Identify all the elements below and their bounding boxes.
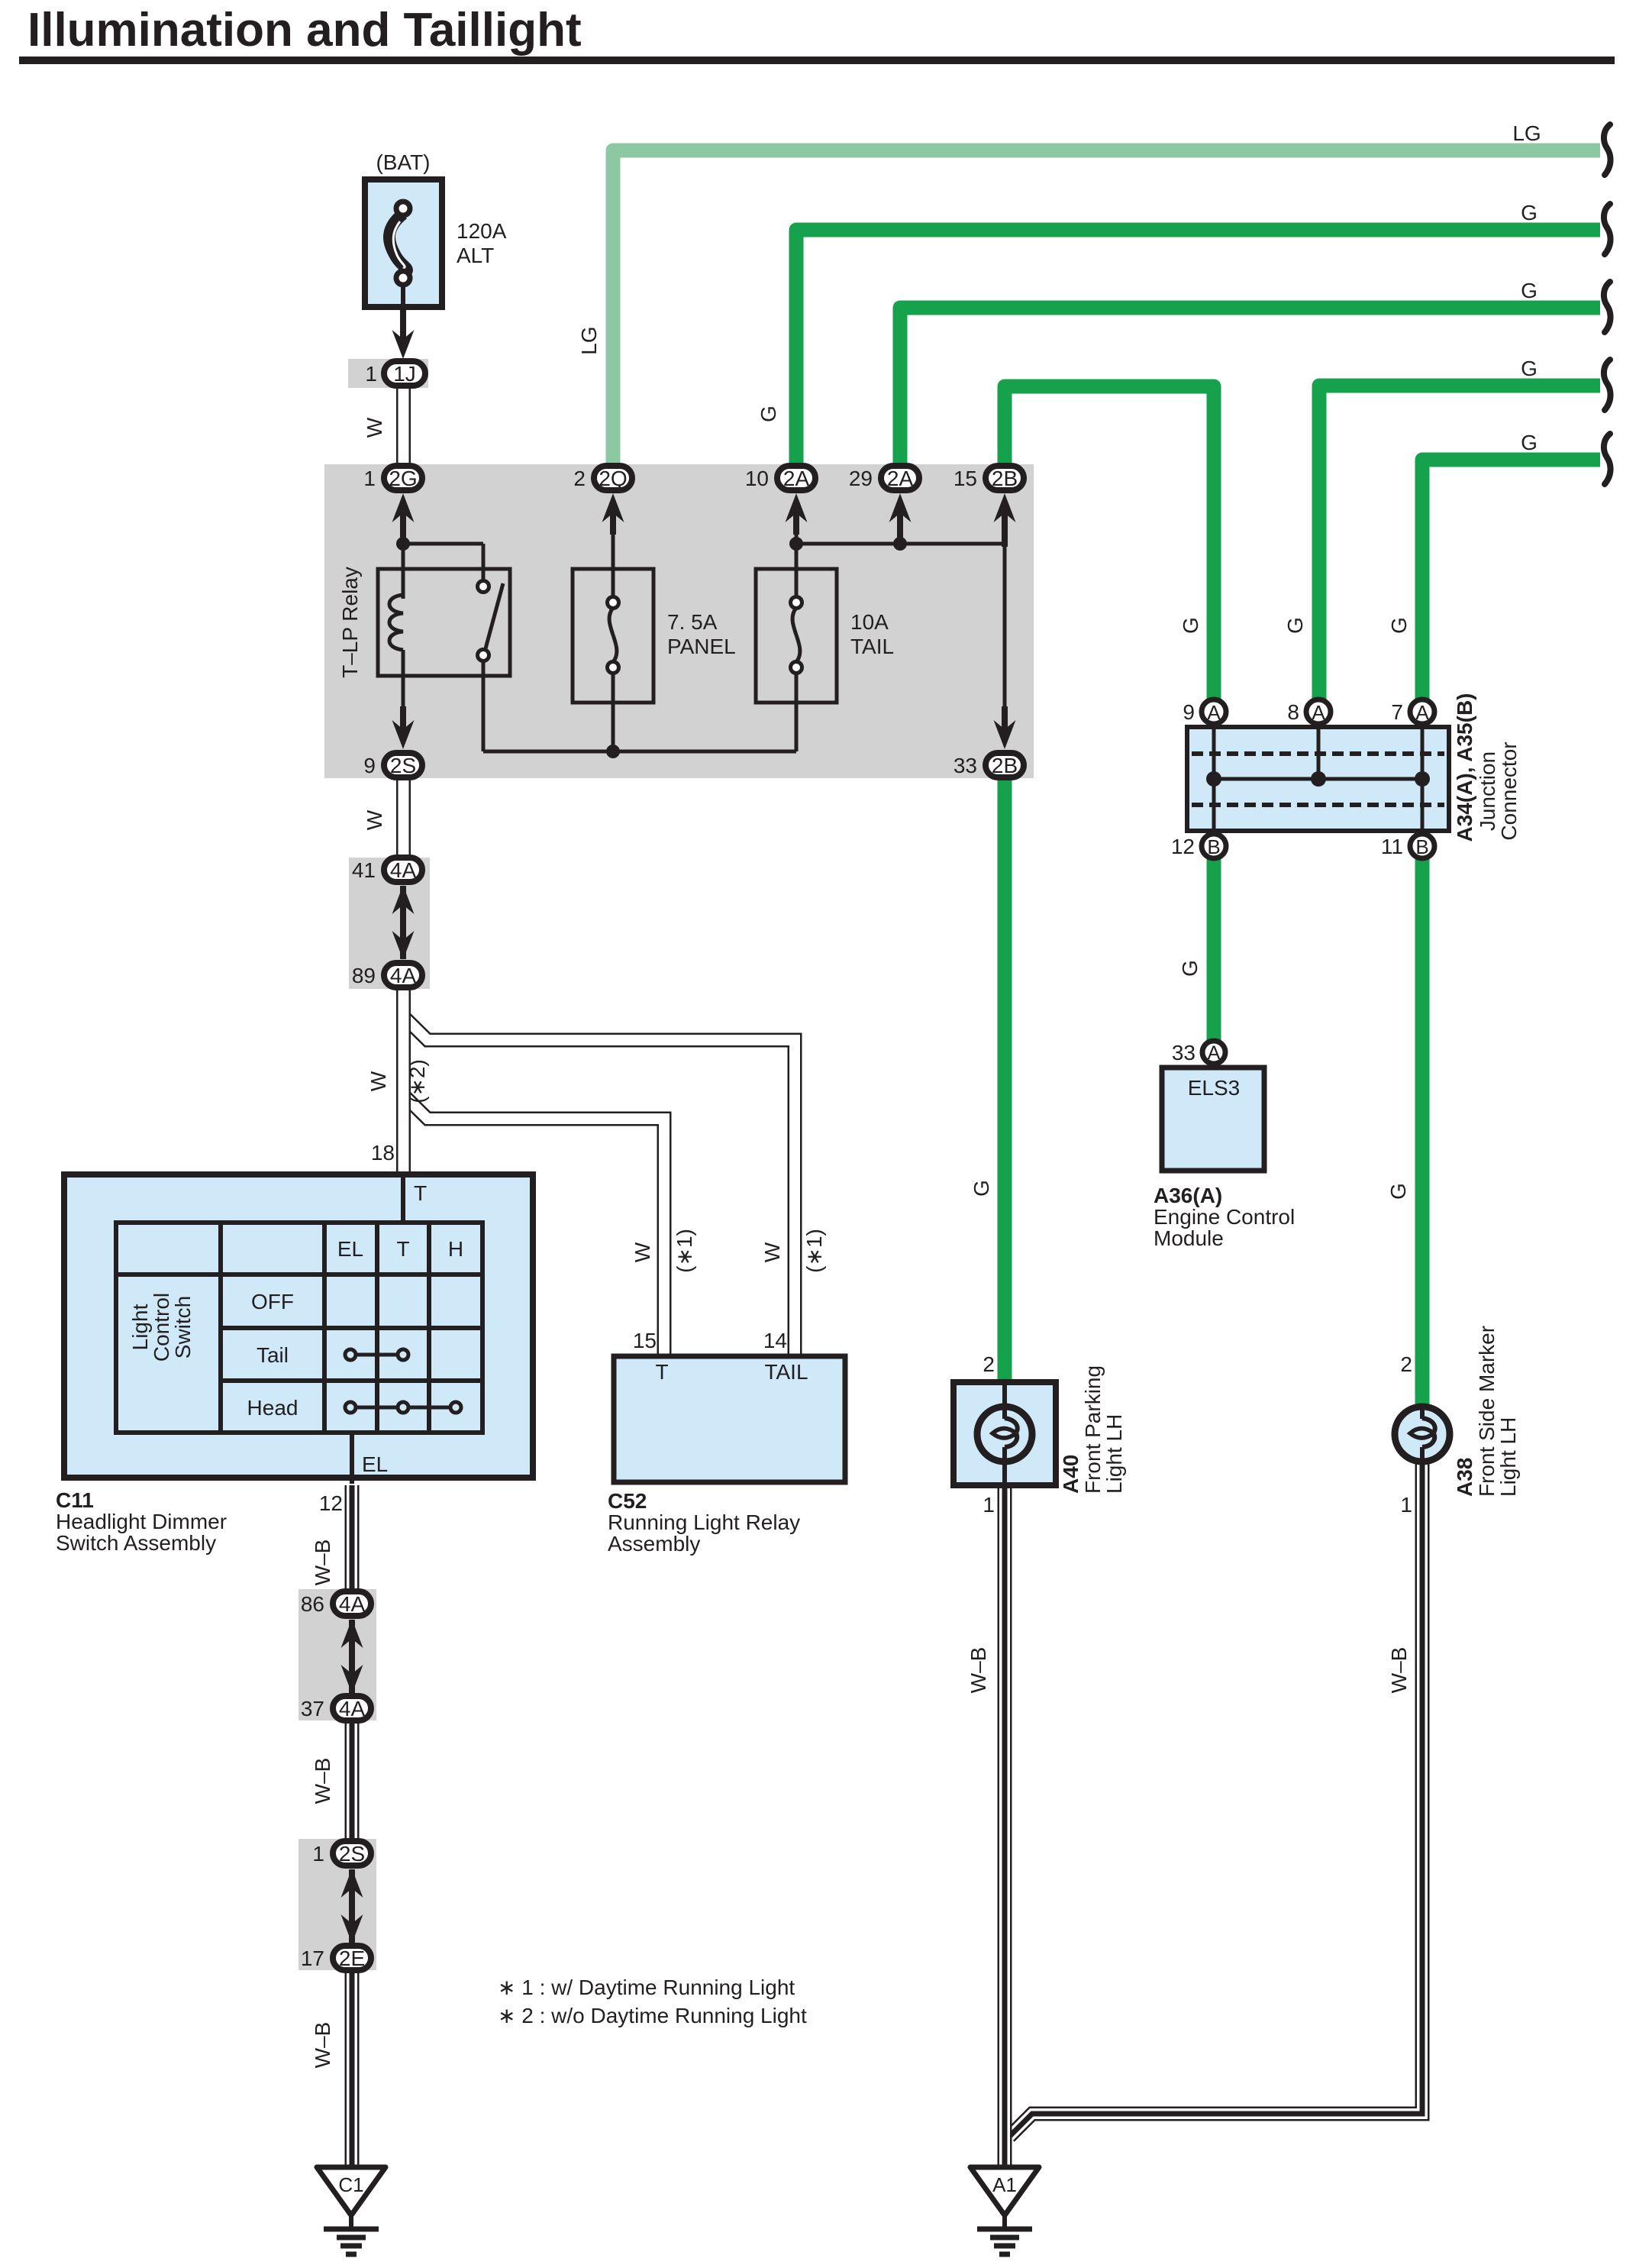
svg-text:PANEL: PANEL bbox=[667, 635, 736, 658]
svg-text:1: 1 bbox=[312, 1842, 324, 1866]
svg-text:G: G bbox=[1179, 617, 1202, 634]
svg-text:G: G bbox=[1521, 431, 1538, 454]
light control switch table bbox=[116, 1223, 482, 1433]
connector 15 2B bbox=[954, 466, 1024, 490]
svg-text:2S: 2S bbox=[339, 1842, 365, 1866]
svg-text:4A: 4A bbox=[339, 1592, 366, 1616]
wire bus 2A to 2B column bbox=[796, 507, 1005, 716]
connector 41/89 4A background bbox=[349, 858, 430, 989]
switch contacts Tail row bbox=[345, 1349, 408, 1360]
break symbol LG wire bbox=[1604, 124, 1611, 175]
junction block internal circuit: 2G to relay bbox=[402, 507, 484, 599]
svg-text:ALT: ALT bbox=[457, 244, 494, 267]
svg-text:∗ 2 : w/o Daytime Running Ligh: ∗ 2 : w/o Daytime Running Light bbox=[498, 2004, 807, 2027]
label junction connector bbox=[1453, 693, 1521, 842]
svg-text:1: 1 bbox=[363, 467, 376, 490]
svg-text:A38: A38 bbox=[1453, 1458, 1476, 1497]
svg-text:8: 8 bbox=[1287, 700, 1299, 724]
svg-text:Switch: Switch bbox=[171, 1296, 195, 1359]
junction block background (gray) bbox=[324, 464, 1034, 778]
svg-text:(∗1): (∗1) bbox=[802, 1229, 826, 1273]
wire W branch to C52 pin 15 bbox=[404, 1095, 665, 1356]
switch contacts Head row bbox=[345, 1402, 461, 1413]
svg-text:LG: LG bbox=[577, 326, 601, 354]
arrow up into 2 2Q bbox=[602, 493, 624, 522]
svg-text:7: 7 bbox=[1391, 700, 1403, 724]
svg-text:2: 2 bbox=[983, 1352, 995, 1376]
svg-text:Front Parking: Front Parking bbox=[1081, 1365, 1105, 1494]
svg-text:10: 10 bbox=[745, 467, 769, 490]
connector pair 41/89 4A bbox=[352, 858, 422, 987]
svg-text:2: 2 bbox=[1400, 1352, 1412, 1376]
table texts bbox=[128, 1181, 463, 1476]
svg-text:89: 89 bbox=[352, 964, 376, 987]
svg-text:W: W bbox=[366, 1071, 390, 1091]
pin 12 B bbox=[1171, 834, 1226, 858]
svg-text:Module: Module bbox=[1154, 1226, 1224, 1250]
pin 9 A bbox=[1183, 699, 1226, 724]
svg-text:A: A bbox=[1207, 701, 1221, 724]
label A40 bbox=[1059, 1365, 1126, 1494]
svg-text:86: 86 bbox=[301, 1592, 324, 1616]
ground A1 bbox=[970, 2167, 1039, 2254]
svg-text:EL: EL bbox=[337, 1237, 363, 1261]
connector 33 2B bbox=[954, 753, 1024, 777]
svg-text:Tail: Tail bbox=[257, 1343, 289, 1367]
svg-text:A: A bbox=[1208, 1042, 1221, 1064]
connector 1J background bbox=[348, 359, 428, 388]
fuse 10A TAIL bbox=[756, 507, 837, 751]
wire G junction pin 11B to A38 bbox=[1415, 858, 1430, 1409]
svg-text:A: A bbox=[1415, 701, 1429, 724]
wire G from 29 2A to right edge bbox=[900, 308, 1600, 465]
wire EL inside C11 bbox=[350, 1433, 354, 1484]
svg-text:4A: 4A bbox=[390, 858, 417, 882]
node junction panel fuse bottom bbox=[606, 745, 620, 758]
node junction at 2G stem bbox=[396, 537, 410, 551]
label 120A ALT bbox=[457, 219, 507, 267]
wire W branch to C52 pin 14 bbox=[404, 1016, 795, 1356]
svg-text:9: 9 bbox=[363, 754, 376, 777]
svg-text:4A: 4A bbox=[339, 1697, 366, 1720]
svg-text:33: 33 bbox=[1172, 1041, 1196, 1065]
svg-text:W–B: W–B bbox=[1387, 1647, 1411, 1694]
arrow up into 15 2B bbox=[994, 493, 1016, 522]
label fuse PANEL bbox=[667, 610, 736, 658]
svg-text:A34(A), A35(B): A34(A), A35(B) bbox=[1453, 693, 1476, 842]
svg-text:Headlight Dimmer: Headlight Dimmer bbox=[56, 1510, 227, 1533]
svg-text:2E: 2E bbox=[339, 1947, 365, 1970]
svg-text:Light: Light bbox=[128, 1304, 152, 1350]
svg-text:18: 18 bbox=[371, 1141, 395, 1165]
svg-text:B: B bbox=[1207, 835, 1220, 858]
svg-text:A: A bbox=[1312, 701, 1325, 724]
svg-text:7. 5A: 7. 5A bbox=[667, 610, 718, 634]
svg-text:(∗2): (∗2) bbox=[405, 1059, 429, 1103]
arrow up into 29 2A bbox=[889, 493, 912, 522]
wire W 89 4A to C11 pin 18 bbox=[396, 987, 411, 1173]
wire T inside C11 bbox=[401, 1174, 405, 1225]
wire labels bbox=[311, 121, 1541, 2068]
svg-text:Control: Control bbox=[150, 1293, 173, 1362]
fuse 7.5A PANEL bbox=[573, 507, 653, 751]
connector 2 2Q bbox=[573, 466, 632, 490]
node junction 10 2A stem bbox=[789, 537, 803, 551]
svg-text:∗ 1 : w/ Daytime Running Light: ∗ 1 : w/ Daytime Running Light bbox=[498, 1976, 795, 1999]
connector pair 1 2S / 17 2E bbox=[301, 1841, 371, 1970]
svg-text:Light LH: Light LH bbox=[1102, 1414, 1126, 1494]
wire G from junction connector pin 8A to right edge bbox=[1319, 386, 1600, 699]
svg-text:T: T bbox=[655, 1360, 668, 1384]
arrow up into 1 2G bbox=[392, 493, 415, 522]
svg-text:41: 41 bbox=[352, 858, 376, 882]
svg-text:W–B: W–B bbox=[311, 1758, 334, 1804]
connector 86/37 4A background bbox=[298, 1589, 376, 1720]
wire G junction pin 12B to ELS3 pin 33A bbox=[1207, 858, 1221, 1041]
connector 1 2G bbox=[363, 466, 422, 490]
wire W-B A40 to ground A1 bbox=[998, 1487, 1012, 2167]
svg-text:T: T bbox=[414, 1181, 427, 1205]
svg-text:2A: 2A bbox=[887, 467, 914, 490]
svg-text:A36(A): A36(A) bbox=[1154, 1184, 1222, 1207]
svg-text:EL: EL bbox=[362, 1452, 388, 1476]
svg-text:2: 2 bbox=[573, 467, 586, 490]
svg-text:W–B: W–B bbox=[311, 1539, 334, 1586]
relay T-LP Relay bbox=[378, 569, 510, 710]
wire LG from fuse 2Q to right edge bbox=[613, 150, 1600, 465]
svg-text:G: G bbox=[1387, 617, 1411, 634]
svg-text:T–LP Relay: T–LP Relay bbox=[338, 567, 362, 678]
connector 1 1J bbox=[365, 361, 425, 386]
svg-text:C11: C11 bbox=[56, 1488, 94, 1512]
svg-text:12: 12 bbox=[319, 1491, 343, 1515]
connector 9 2S bbox=[363, 753, 422, 777]
svg-text:W: W bbox=[363, 809, 386, 830]
svg-text:Assembly: Assembly bbox=[608, 1532, 700, 1556]
svg-text:10A: 10A bbox=[850, 610, 889, 634]
svg-text:11: 11 bbox=[1381, 835, 1403, 858]
svg-text:ELS3: ELS3 bbox=[1188, 1076, 1241, 1100]
svg-text:29: 29 bbox=[849, 467, 873, 490]
svg-text:17: 17 bbox=[301, 1947, 324, 1970]
svg-text:T: T bbox=[396, 1237, 409, 1261]
switch C11 box bbox=[64, 1174, 533, 1478]
node junction dot pin8 bbox=[1311, 771, 1326, 787]
connector 10 2A bbox=[745, 466, 815, 490]
wire ALT output with arrow into 1J bbox=[392, 310, 415, 359]
pin 11 B bbox=[1381, 834, 1434, 858]
svg-text:15: 15 bbox=[633, 1329, 657, 1352]
svg-text:A1: A1 bbox=[992, 2173, 1017, 2196]
svg-text:G: G bbox=[1178, 960, 1202, 977]
svg-text:14: 14 bbox=[763, 1329, 787, 1352]
svg-text:Head: Head bbox=[247, 1396, 298, 1420]
svg-text:120A: 120A bbox=[457, 219, 507, 243]
svg-text:2Q: 2Q bbox=[599, 467, 627, 490]
svg-text:Front Side Marker: Front Side Marker bbox=[1475, 1326, 1499, 1497]
svg-text:Light LH: Light LH bbox=[1496, 1417, 1520, 1497]
svg-text:A40: A40 bbox=[1059, 1455, 1083, 1494]
svg-text:G: G bbox=[1521, 201, 1538, 225]
label ECM bbox=[1154, 1184, 1295, 1250]
svg-text:G: G bbox=[757, 405, 780, 422]
wire relay switch to fuse bottoms bbox=[483, 661, 796, 751]
svg-text:2A: 2A bbox=[783, 467, 810, 490]
ECM connector pin 33 A bbox=[1172, 1041, 1225, 1065]
svg-text:Connector: Connector bbox=[1497, 741, 1521, 840]
svg-text:(∗1): (∗1) bbox=[673, 1229, 696, 1273]
node junction 29 2A stem bbox=[893, 537, 907, 551]
pin 8 A bbox=[1287, 699, 1331, 724]
svg-text:Illumination and Taillight: Illumination and Taillight bbox=[27, 4, 582, 57]
connector 1 2S / 17 2E background bbox=[298, 1839, 376, 1970]
svg-text:LG: LG bbox=[1512, 121, 1541, 145]
wire G from 15 2B to junction connector pin 9A bbox=[1005, 386, 1214, 699]
svg-text:G: G bbox=[1386, 1183, 1410, 1200]
svg-text:1J: 1J bbox=[393, 362, 416, 386]
label A38 bbox=[1453, 1326, 1520, 1497]
node junction dot pin7 bbox=[1415, 771, 1430, 787]
svg-text:12: 12 bbox=[1171, 835, 1195, 858]
pin 7 A bbox=[1391, 699, 1434, 724]
svg-text:OFF: OFF bbox=[251, 1290, 294, 1313]
wire W-B A38 to ground A1 join bbox=[1009, 1459, 1422, 2137]
svg-text:15: 15 bbox=[954, 467, 977, 490]
svg-text:W–B: W–B bbox=[311, 2022, 334, 2069]
break symbol G wire 4 bbox=[1604, 360, 1611, 410]
svg-text:2S: 2S bbox=[390, 754, 416, 777]
svg-text:TAIL: TAIL bbox=[850, 635, 894, 658]
junction connector A34(A) A35(B) box bbox=[1187, 727, 1449, 831]
wire W-B C11 pin 12 to 86 4A bbox=[345, 1485, 360, 1592]
wire into 9 2S with arrow bbox=[392, 706, 415, 749]
wire W 9 2S to 41 4A bbox=[396, 777, 411, 859]
svg-text:37: 37 bbox=[301, 1697, 324, 1720]
svg-text:G: G bbox=[1283, 617, 1307, 634]
wire G from 10 2A to right edge bbox=[796, 230, 1600, 465]
svg-text:1: 1 bbox=[1400, 1493, 1412, 1517]
wire G from junction connector pin 7A to right edge bbox=[1422, 460, 1600, 699]
label C52 bbox=[608, 1489, 800, 1556]
svg-text:Junction: Junction bbox=[1476, 751, 1499, 831]
wire G from 33 2B to A40 bbox=[998, 779, 1012, 1381]
svg-text:W: W bbox=[760, 1242, 784, 1262]
svg-text:1: 1 bbox=[983, 1493, 995, 1517]
title bbox=[19, 4, 1615, 64]
arrow up into 10 2A bbox=[786, 493, 808, 522]
svg-text:2B: 2B bbox=[992, 754, 1018, 777]
svg-text:G: G bbox=[1521, 357, 1538, 380]
node junction dot pin9 bbox=[1206, 771, 1221, 787]
wire into 33 2B with arrow bbox=[994, 706, 1016, 749]
label C11 bbox=[56, 1488, 227, 1555]
svg-text:G: G bbox=[970, 1180, 993, 1197]
svg-text:W: W bbox=[631, 1242, 654, 1262]
svg-text:1: 1 bbox=[365, 362, 377, 386]
svg-text:B: B bbox=[1415, 835, 1428, 858]
svg-text:C52: C52 bbox=[608, 1489, 647, 1513]
svg-text:33: 33 bbox=[954, 754, 977, 777]
wire W-B 37 4A to 1 2S bbox=[345, 1722, 360, 1842]
break symbol G wire 2 bbox=[1604, 204, 1611, 254]
svg-text:2B: 2B bbox=[992, 467, 1018, 490]
lamp A38 Front Side Marker Light LH bbox=[1395, 1407, 1450, 1462]
break symbol G wire 5 bbox=[1604, 434, 1611, 484]
ECM A36(A) box bbox=[1162, 1068, 1264, 1171]
break symbol G wire 3 bbox=[1604, 282, 1611, 332]
wire W-B 17 2E to ground C1 bbox=[345, 1970, 360, 2167]
svg-text:TAIL: TAIL bbox=[764, 1360, 808, 1384]
ground C1 bbox=[317, 2167, 386, 2254]
svg-text:Running Light Relay: Running Light Relay bbox=[608, 1510, 800, 1534]
svg-text:W–B: W–B bbox=[966, 1647, 990, 1694]
svg-text:4A: 4A bbox=[390, 964, 417, 987]
svg-text:W: W bbox=[363, 417, 386, 438]
relay assembly C52 box bbox=[614, 1356, 845, 1482]
connector pair 86/37 4A bbox=[301, 1591, 371, 1720]
svg-text:9: 9 bbox=[1183, 700, 1195, 724]
notes bbox=[498, 1976, 807, 2027]
svg-text:Engine Control: Engine Control bbox=[1154, 1205, 1295, 1229]
wire W alternator 1J to 2G bbox=[396, 386, 411, 466]
svg-text:Switch Assembly: Switch Assembly bbox=[56, 1531, 216, 1555]
svg-text:2G: 2G bbox=[389, 467, 417, 490]
svg-text:H: H bbox=[448, 1237, 463, 1261]
connector 29 2A bbox=[849, 466, 919, 490]
label fuse TAIL bbox=[850, 610, 894, 658]
svg-text:G: G bbox=[1521, 279, 1538, 302]
svg-text:(BAT): (BAT) bbox=[376, 150, 430, 174]
lamp A40 Front Parking Light LH bbox=[954, 1382, 1056, 1486]
svg-text:C1: C1 bbox=[338, 2173, 363, 2196]
fusible link 120A ALT box bbox=[365, 179, 442, 307]
